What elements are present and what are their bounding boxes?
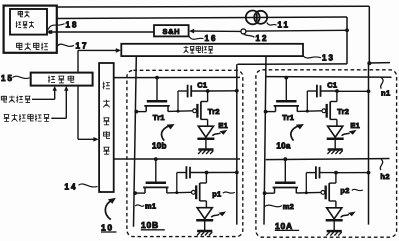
svg-text:Tr1: Tr1: [153, 113, 165, 122]
svg-text:Tr2: Tr2: [337, 107, 349, 116]
svg-text:16: 16: [205, 34, 218, 43]
svg-text:13: 13: [322, 54, 335, 63]
svg-text:17: 17: [76, 41, 89, 50]
svg-text:S&H: S&H: [162, 27, 180, 36]
svg-text:14: 14: [65, 182, 78, 191]
svg-text:10: 10: [101, 222, 114, 232]
svg-text:C1: C1: [197, 80, 207, 89]
svg-text:p2: p2: [340, 186, 349, 195]
svg-text:Tr2: Tr2: [208, 107, 220, 116]
svg-text:p1: p1: [212, 189, 221, 198]
svg-text:h2: h2: [380, 172, 390, 181]
svg-text:10B: 10B: [141, 220, 159, 230]
svg-text:m2: m2: [283, 202, 294, 211]
svg-text:Tr1: Tr1: [282, 113, 294, 122]
svg-text:E1: E1: [218, 121, 228, 130]
svg-text:10A: 10A: [275, 221, 293, 231]
svg-text:C1: C1: [327, 81, 337, 90]
svg-text:11: 11: [278, 20, 290, 29]
svg-text:10b: 10b: [152, 141, 167, 150]
svg-text:E1: E1: [350, 121, 360, 130]
svg-text:18: 18: [66, 20, 79, 29]
svg-text:15: 15: [1, 74, 14, 83]
svg-text:12: 12: [256, 34, 269, 43]
svg-text:10a: 10a: [276, 142, 290, 151]
svg-text:m1: m1: [145, 202, 156, 211]
svg-text:n1: n1: [381, 89, 391, 98]
